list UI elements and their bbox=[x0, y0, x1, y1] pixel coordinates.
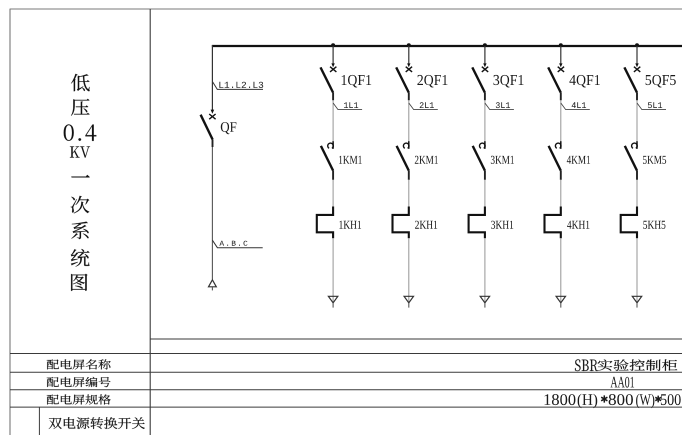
panel name value SBR bbox=[575, 359, 598, 371]
net label 4L1 bbox=[572, 102, 586, 108]
label 5QF5 bbox=[646, 75, 676, 88]
arrowhead at 2QF1 fixed contact bbox=[407, 63, 410, 67]
wire 1KM1 blade stub bbox=[332, 171, 334, 180]
wire 3KM1 blade stub bbox=[484, 171, 486, 180]
wire 5KH5 to load arrow bbox=[636, 238, 638, 302]
wire 4KM1 to thermal relay 4KH1 bbox=[560, 180, 562, 207]
wire load arrow tail feeder 1 bbox=[332, 303, 334, 308]
wire 4KM1 fixed contact stem bbox=[560, 141, 562, 149]
schematic area bottom line bbox=[150, 338, 682, 340]
drawing border left bbox=[9, 9, 11, 435]
wire incoming tail bbox=[211, 287, 213, 290]
panel number value AA01 bbox=[611, 377, 635, 388]
wire 2KM1 fixed contact stem bbox=[408, 141, 410, 149]
breaker 4QF1 contact cross bbox=[558, 67, 564, 72]
table row line 1 bbox=[10, 353, 682, 355]
breaker 4QF1 blade bbox=[548, 67, 561, 92]
title char 低 bbox=[71, 74, 90, 91]
title char 压 bbox=[71, 99, 90, 116]
wire load arrow tail feeder 4 bbox=[560, 303, 562, 308]
load arrow feeder 2 (down triangle) bbox=[404, 296, 413, 303]
wire 4QF1 blade stub bbox=[560, 93, 562, 101]
label leader 4L1 bbox=[561, 103, 590, 110]
label 4QF1 bbox=[569, 75, 599, 88]
thermal relay 5KH5 heater element bbox=[621, 207, 637, 239]
breaker 1QF1 blade bbox=[321, 67, 334, 92]
contactor 3KM1 fixed contact arc bbox=[479, 143, 485, 148]
contactor 5KM5 fixed contact arc bbox=[632, 143, 638, 148]
load arrow feeder 3 (down triangle) bbox=[480, 296, 489, 303]
title char 系 bbox=[71, 222, 88, 240]
breaker 3QF1 blade bbox=[472, 67, 485, 92]
table label 配电屏规格 bbox=[47, 394, 111, 404]
table row line 2 bbox=[10, 371, 682, 373]
contactor 1KM1 fixed contact arc bbox=[328, 143, 334, 148]
breaker 3QF1 contact cross bbox=[482, 67, 488, 72]
wire 2KM1 to thermal relay 2KH1 bbox=[408, 180, 410, 207]
wire bus drop to QF bbox=[211, 45, 213, 110]
label 5KM5 bbox=[643, 156, 666, 164]
net label 2L1 bbox=[420, 102, 434, 108]
label 3QF1 bbox=[494, 75, 524, 88]
breaker 2QF1 contact cross bbox=[406, 67, 412, 72]
thermal relay 3KH1 heater element bbox=[469, 207, 485, 239]
label 2KM1 bbox=[415, 156, 438, 164]
breaker 2QF1 blade bbox=[396, 67, 409, 92]
label 4KH1 bbox=[567, 221, 589, 229]
wire 1QF1 to contactor 1KM1 bbox=[332, 100, 334, 146]
net label 1L1 bbox=[344, 102, 358, 108]
load arrow feeder 5 (down triangle) bbox=[632, 296, 641, 303]
wire 4QF1 to contactor 4KM1 bbox=[560, 100, 562, 146]
net label A.B.C bbox=[219, 241, 247, 246]
contactor 1KM1 blade bbox=[321, 146, 333, 171]
wire 2QF1 to contactor 2KM1 bbox=[408, 100, 410, 146]
breaker QF contact cross bbox=[209, 114, 215, 119]
label leader L1.L2.L3 bbox=[212, 82, 263, 90]
panel size seg asterisk 1 bbox=[601, 395, 607, 402]
thermal relay 4KH1 heater element bbox=[545, 207, 561, 239]
title text 0.4 bbox=[64, 124, 97, 141]
wire 1KH1 to load arrow bbox=[332, 238, 334, 302]
table row line 3 bbox=[10, 389, 682, 391]
label 1KM1 bbox=[339, 156, 362, 164]
breaker 5QF5 blade bbox=[624, 67, 637, 92]
panel name value 实验控制柜 bbox=[597, 359, 677, 371]
wire QF blade stub bbox=[212, 140, 214, 148]
contactor 4KM1 fixed contact arc bbox=[555, 143, 561, 148]
panel size seg asterisk 2 bbox=[655, 396, 661, 403]
wire 3QF1 to contactor 3KM1 bbox=[484, 100, 486, 146]
wire QF to incoming arrow bbox=[211, 147, 213, 279]
label 3KH1 bbox=[491, 221, 513, 229]
wire 3KM1 to thermal relay 3KH1 bbox=[484, 180, 486, 207]
wire 5QF5 blade stub bbox=[636, 93, 638, 101]
label 1QF1 bbox=[342, 75, 372, 88]
wire 5QF5 to contactor 5KM5 bbox=[636, 100, 638, 146]
title text KV bbox=[70, 146, 90, 157]
label 1KH1 bbox=[339, 221, 361, 229]
wire 4KM1 blade stub bbox=[560, 171, 562, 180]
panel size seg (W) bbox=[636, 394, 654, 409]
arrowhead at 3QF1 fixed contact bbox=[483, 63, 486, 67]
incoming supply arrow (up triangle) bbox=[209, 280, 217, 287]
panel size seg (H) bbox=[578, 394, 598, 409]
net label L1.L2.L3 bbox=[219, 82, 263, 88]
wire 3KH1 to load arrow bbox=[484, 238, 486, 302]
contactor 4KM1 blade bbox=[549, 146, 561, 171]
panel size seg 500 bbox=[661, 394, 681, 405]
table label 配电屏名称 bbox=[47, 359, 111, 369]
node feeder 3 bus tap bbox=[483, 43, 487, 47]
wire 2QF1 blade stub bbox=[408, 93, 410, 101]
label leader 1L1 bbox=[333, 103, 362, 110]
wire 5KM5 fixed contact stem bbox=[636, 141, 638, 149]
contactor 3KM1 blade bbox=[473, 146, 485, 171]
node feeder 4 bus tap bbox=[559, 43, 563, 47]
label 4KM1 bbox=[567, 156, 590, 164]
arrowhead at 5QF5 fixed contact bbox=[635, 63, 638, 67]
wire bus drop feeder 4 bbox=[560, 46, 562, 64]
main 0.4kV bus bbox=[212, 45, 682, 47]
label leader 3L1 bbox=[485, 103, 514, 110]
net label 3L1 bbox=[496, 102, 510, 108]
breaker 5QF5 contact cross bbox=[634, 67, 640, 72]
table label 配电屏编号 bbox=[47, 377, 111, 387]
thermal relay 1KH1 heater element bbox=[317, 207, 333, 239]
contactor 2KM1 blade bbox=[397, 146, 409, 171]
label 2QF1 bbox=[417, 75, 447, 88]
thermal relay 2KH1 heater element bbox=[393, 207, 409, 239]
title column divider bbox=[149, 9, 151, 435]
label leader 2L1 bbox=[409, 103, 438, 110]
label QF bbox=[221, 122, 237, 134]
table cell divider (last row) bbox=[38, 407, 40, 435]
breaker QF blade bbox=[201, 115, 213, 140]
panel size seg 1800 bbox=[545, 394, 576, 405]
contactor 5KM5 blade bbox=[625, 146, 637, 171]
label leader A.B.C bbox=[212, 240, 262, 248]
wire bus drop feeder 2 bbox=[408, 46, 410, 64]
table label 双电源转换开关 bbox=[49, 417, 145, 429]
wire 3KM1 fixed contact stem bbox=[484, 141, 486, 149]
table row line 4 bbox=[10, 406, 682, 408]
title char 一 bbox=[71, 175, 89, 177]
arrowhead at 4QF1 fixed contact bbox=[559, 63, 562, 67]
wire load arrow tail feeder 2 bbox=[408, 303, 410, 308]
breaker 1QF1 contact cross bbox=[330, 67, 336, 72]
wire 1KM1 fixed contact stem bbox=[332, 141, 334, 149]
label 2KH1 bbox=[415, 221, 437, 229]
load arrow feeder 4 (down triangle) bbox=[556, 296, 565, 303]
wire 1QF1 blade stub bbox=[332, 93, 334, 101]
wire bus drop feeder 1 bbox=[332, 46, 334, 64]
wire 3QF1 blade stub bbox=[484, 93, 486, 101]
wire 5KM5 to thermal relay 5KH5 bbox=[636, 180, 638, 207]
wire 4KH1 to load arrow bbox=[560, 238, 562, 302]
label leader 5L1 bbox=[637, 103, 666, 110]
node feeder 1 bus tap bbox=[331, 43, 335, 47]
wire load arrow tail feeder 5 bbox=[636, 303, 638, 308]
wire bus drop feeder 3 bbox=[484, 46, 486, 64]
label 3KM1 bbox=[491, 156, 514, 164]
drawing border top bbox=[10, 8, 682, 10]
net label 5L1 bbox=[648, 102, 662, 108]
wire bus drop feeder 5 bbox=[636, 46, 638, 64]
arrowhead at QF fixed contact bbox=[211, 110, 215, 114]
wire load arrow tail feeder 3 bbox=[484, 303, 486, 308]
title char 图 bbox=[71, 274, 87, 291]
title char 统 bbox=[71, 249, 90, 267]
load arrow feeder 1 (down triangle) bbox=[328, 296, 337, 303]
label 5KH5 bbox=[643, 221, 665, 229]
wire 2KH1 to load arrow bbox=[408, 238, 410, 302]
node feeder 5 bus tap bbox=[635, 43, 639, 47]
panel size seg 800 bbox=[609, 394, 633, 405]
contactor 2KM1 fixed contact arc bbox=[403, 143, 409, 148]
arrowhead at 1QF1 fixed contact bbox=[331, 63, 334, 67]
wire 2KM1 blade stub bbox=[408, 171, 410, 180]
wire 5KM5 blade stub bbox=[636, 171, 638, 180]
title char 次 bbox=[71, 196, 90, 214]
wire 1KM1 to thermal relay 1KH1 bbox=[332, 180, 334, 207]
node feeder 2 bus tap bbox=[407, 43, 411, 47]
